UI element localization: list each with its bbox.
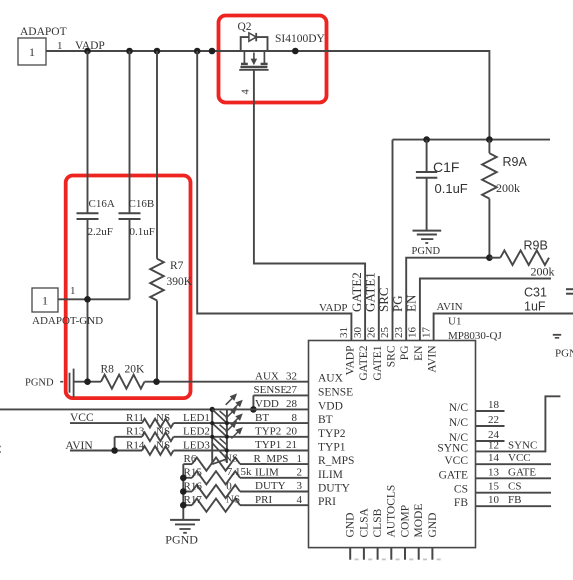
wire SRC rail horizontal	[393, 139, 551, 141]
wire ADAPOT-GND to C16A/C16B	[58, 298, 130, 300]
svg-text:32: 32	[286, 370, 297, 382]
svg-text:CS: CS	[508, 481, 521, 493]
wire SRC vertical down to IC pin 25	[392, 140, 394, 341]
svg-text:U1: U1	[448, 316, 461, 328]
svg-text:R13: R13	[126, 426, 145, 438]
svg-text:390K: 390K	[167, 276, 193, 288]
svg-text:20K: 20K	[125, 363, 146, 375]
svg-text:31: 31	[338, 327, 350, 338]
svg-text:PGND: PGND	[412, 246, 441, 257]
svg-text:FB: FB	[454, 497, 468, 509]
svg-text:16: 16	[407, 327, 419, 339]
red highlight box around Q2	[219, 16, 327, 103]
svg-text:SENSE: SENSE	[318, 386, 353, 398]
svg-text:R9B: R9B	[524, 239, 548, 253]
svg-text:22: 22	[488, 414, 499, 426]
svg-text:BT: BT	[255, 412, 269, 424]
wire EN: pin 16 up and right	[420, 279, 551, 341]
svg-text:0: 0	[226, 481, 232, 493]
resistor R17 NS	[192, 499, 240, 512]
svg-text:FB: FB	[508, 494, 521, 506]
svg-text:1uF: 1uF	[524, 300, 546, 314]
svg-text:200k: 200k	[496, 181, 520, 195]
junction dots on VADP wire	[84, 48, 91, 55]
svg-text:17: 17	[420, 327, 432, 339]
wire GATE	[476, 477, 552, 479]
svg-text:NS: NS	[226, 494, 240, 506]
svg-text:C16B: C16B	[129, 198, 155, 210]
svg-text:AUX: AUX	[255, 370, 279, 382]
svg-text:VDD: VDD	[255, 398, 279, 410]
svg-text:PGND: PGND	[165, 532, 198, 546]
svg-text:N/C: N/C	[449, 402, 469, 414]
resistor R9B 200k	[489, 257, 500, 259]
svg-text:DUTY: DUTY	[255, 480, 286, 492]
svg-text:GATE1: GATE1	[372, 345, 384, 380]
svg-text:R8: R8	[101, 363, 115, 375]
svg-text:28: 28	[286, 398, 298, 410]
svg-text:ADAPOT: ADAPOT	[20, 26, 67, 38]
wire AVIN: pin 17 up and right to edge	[434, 314, 573, 341]
wire CS	[476, 492, 552, 494]
wire BT row	[70, 422, 142, 424]
resistor R13 NS	[142, 432, 174, 441]
capacitor C1F 0.1uF	[426, 140, 428, 172]
svg-text:R6: R6	[184, 453, 197, 465]
svg-text:13: 13	[488, 466, 500, 478]
LED2 diode body	[212, 423, 227, 437]
svg-text:VCC: VCC	[444, 455, 468, 467]
wire TYP1 row (AVIN)	[70, 450, 142, 452]
svg-text:C1F: C1F	[433, 159, 459, 175]
wire PGND rail to AUX pin 32	[74, 381, 101, 383]
svg-text:PGND: PGND	[555, 348, 573, 360]
svg-text:MODE: MODE	[413, 504, 425, 538]
resistor R8 20K	[101, 375, 145, 389]
wire Q2 drain down to GATE2 pin 30	[254, 70, 365, 341]
svg-text:C31: C31	[524, 286, 547, 300]
ground PGND (bottom)	[170, 519, 200, 521]
ground PGND under C1F	[413, 230, 442, 232]
wire VCC	[476, 463, 552, 465]
svg-text:PG: PG	[399, 346, 411, 361]
svg-text:21: 21	[286, 439, 297, 451]
svg-text:PRI: PRI	[255, 494, 272, 506]
resistor R15 7.15k	[192, 471, 240, 484]
wire N/C stub 22	[476, 425, 505, 427]
svg-text:GATE: GATE	[508, 466, 536, 478]
svg-text:ILIM: ILIM	[318, 469, 343, 481]
svg-text:AUX: AUX	[318, 373, 344, 385]
svg-text:8: 8	[292, 412, 298, 424]
svg-text:GATE2: GATE2	[358, 345, 370, 380]
junction C1F top	[423, 136, 430, 143]
wire DUTY row	[183, 491, 192, 493]
red highlight box around C16A C16B R7 R8	[66, 176, 191, 399]
wire SYNC up and right	[476, 396, 561, 451]
svg-text:R11: R11	[126, 412, 144, 424]
wire N/C stub 18	[476, 410, 505, 412]
junction R9A top	[486, 136, 493, 143]
svg-text:DUTY: DUTY	[318, 483, 351, 495]
svg-text:VCC: VCC	[508, 452, 531, 464]
svg-text:200k: 200k	[531, 265, 555, 279]
svg-text:NS: NS	[224, 452, 238, 464]
connector ADAPOT-GND (port box, pin 1)	[32, 288, 58, 312]
svg-text:20: 20	[286, 426, 298, 438]
svg-text:GATE: GATE	[439, 469, 468, 481]
svg-text:7.15k: 7.15k	[227, 466, 252, 478]
svg-text:R14: R14	[126, 439, 145, 451]
diode triangle at column bottom	[212, 443, 227, 459]
svg-text:BT: BT	[318, 414, 333, 426]
wire resistor-bank left rail down to ground	[182, 464, 184, 520]
svg-text:NS: NS	[156, 426, 170, 438]
op-amp / IC U1 MP8030-QJ body	[309, 341, 476, 548]
svg-text:SYNC: SYNC	[437, 442, 468, 454]
connector ADAPOT (port box, pin 1)	[18, 38, 46, 65]
LED1 diode body	[212, 409, 227, 423]
svg-text:TYP2: TYP2	[255, 426, 281, 438]
wire AVIN jog up to TYP2 row	[114, 437, 116, 451]
wire VADP down-riser to IC pin 31	[197, 51, 351, 341]
svg-text:CLSA: CLSA	[358, 507, 370, 537]
svg-text:CLSB: CLSB	[372, 508, 384, 537]
svg-text:NS: NS	[156, 439, 170, 451]
svg-text:25: 25	[379, 327, 391, 339]
transistor Q2 SI4100DY (P-MOSFET with body diode)	[239, 33, 268, 70]
svg-text:SI4100DY: SI4100DY	[275, 33, 326, 45]
wire VDD row (from left edge)	[0, 408, 309, 410]
svg-text:AVIN: AVIN	[437, 301, 463, 313]
resistor R6 NS	[192, 458, 240, 471]
svg-text:15: 15	[488, 481, 500, 493]
svg-text:LED1: LED1	[183, 412, 210, 424]
wire PRI row	[183, 504, 192, 506]
ground symbol under C31 (cut)	[553, 334, 561, 336]
wire ILIM row	[183, 477, 192, 479]
svg-text:AVIN: AVIN	[427, 345, 439, 373]
svg-text:23: 23	[393, 327, 405, 339]
svg-text:VDD: VDD	[318, 400, 343, 412]
wire R_MPS row	[183, 463, 192, 465]
svg-text:GND: GND	[345, 513, 357, 538]
wire VADP: connector to top-right corner, down to SRC rail	[46, 51, 489, 140]
wire PG: pin 23 up and right to R9A/R9B junction	[406, 258, 489, 341]
LED column rails	[211, 409, 213, 464]
svg-text:26: 26	[366, 327, 378, 339]
resistor R9A 200k	[488, 140, 490, 154]
capacitor C16A 2.2uF	[87, 51, 89, 213]
svg-text:VADP: VADP	[319, 302, 348, 314]
svg-text:GND: GND	[427, 513, 439, 538]
resistor R7 390K	[156, 51, 158, 259]
svg-text:4: 4	[240, 89, 251, 95]
svg-text:1: 1	[29, 45, 35, 59]
svg-text:LED2: LED2	[183, 426, 210, 438]
svg-text:0.1uF: 0.1uF	[130, 226, 155, 238]
svg-text:2: 2	[297, 467, 303, 479]
svg-text:R9A: R9A	[503, 155, 528, 169]
svg-text:TYP1: TYP1	[318, 442, 346, 454]
svg-text:COMP: COMP	[399, 505, 411, 538]
svg-text:VCC: VCC	[70, 412, 94, 424]
svg-text:Q2: Q2	[238, 21, 252, 33]
svg-text:18: 18	[488, 399, 500, 411]
svg-text:30: 30	[352, 327, 364, 339]
svg-text:N/C: N/C	[449, 417, 469, 429]
svg-text:EN: EN	[404, 294, 419, 312]
capacitor C31 1uF (cut at edge)	[566, 288, 573, 290]
svg-text:AUTOCLS: AUTOCLS	[386, 485, 398, 538]
svg-text:SENSE: SENSE	[254, 384, 288, 396]
wire N/C stub 24	[476, 440, 505, 442]
capacitor C16B 0.1uF	[129, 51, 131, 213]
svg-text:SRC: SRC	[386, 345, 398, 367]
svg-text:1: 1	[70, 285, 76, 297]
wire FB	[476, 505, 552, 507]
svg-text:TYP1: TYP1	[255, 439, 281, 451]
faint cut pin numbers below	[355, 559, 359, 561]
svg-text:PGND: PGND	[25, 378, 54, 389]
svg-text:VADP: VADP	[344, 346, 356, 376]
svg-text:EN: EN	[413, 345, 425, 361]
svg-text:2.2uF: 2.2uF	[88, 226, 113, 238]
svg-text:SYNC: SYNC	[508, 439, 537, 451]
svg-text:0.1uF: 0.1uF	[435, 181, 468, 196]
svg-text:27: 27	[286, 384, 298, 396]
resistor R11 NS	[142, 419, 174, 428]
svg-text:AVIN: AVIN	[65, 440, 93, 452]
svg-text:R_MPS: R_MPS	[254, 453, 289, 465]
svg-text:PRI: PRI	[318, 496, 336, 508]
U1 bottom pin stubs	[349, 548, 351, 560]
svg-text:10: 10	[488, 494, 500, 506]
svg-text:1: 1	[42, 294, 48, 308]
svg-text:ADAPOT-GND: ADAPOT-GND	[32, 315, 103, 327]
resistor R16 0	[192, 485, 240, 498]
wire SENSE jog down to VDD row	[253, 394, 308, 396]
svg-text:R7: R7	[170, 260, 184, 272]
svg-text:CS: CS	[454, 484, 468, 496]
svg-text:C: C	[0, 442, 2, 456]
svg-text:TYP2: TYP2	[318, 428, 346, 440]
svg-text:1: 1	[297, 453, 303, 465]
svg-text:C16A: C16A	[89, 198, 115, 210]
svg-text:ILIM: ILIM	[255, 467, 279, 479]
svg-text:NS: NS	[156, 412, 170, 424]
svg-text:3: 3	[297, 480, 303, 492]
svg-text:14: 14	[488, 452, 500, 464]
resistor R14 NS	[142, 446, 174, 455]
svg-text:4: 4	[297, 494, 303, 506]
svg-text:LED3: LED3	[183, 439, 210, 451]
svg-text:MP8030-QJ: MP8030-QJ	[448, 330, 503, 342]
wire GATE1 stub pin 26	[378, 276, 380, 341]
wire TYP2 row	[115, 436, 142, 438]
svg-text:R_MPS: R_MPS	[318, 455, 354, 467]
LED3 diode body	[212, 437, 227, 451]
